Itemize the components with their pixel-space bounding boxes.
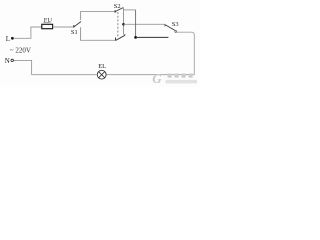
S1 lower contact riser: [80, 27, 82, 40]
fuse FU body: [42, 24, 53, 28]
svg-text:FU: FU: [44, 17, 53, 24]
svg-text:EL: EL: [98, 63, 106, 70]
wire node to S3 lower throw: [136, 36, 169, 38]
node on outer rail: [134, 36, 137, 39]
S2 lower throw tick: [115, 38, 117, 41]
lamp cross stroke 1: [99, 72, 105, 78]
S3 pole contact: [175, 31, 177, 33]
lamp EL: [97, 70, 106, 79]
S2 outer right rail: [135, 10, 137, 38]
bottom wire left segment: [32, 74, 98, 76]
svg-text:S1: S1: [71, 29, 78, 36]
svg-text:~ 220V: ~ 220V: [10, 46, 31, 54]
svg-text:S3: S3: [172, 21, 179, 28]
S2 lower blade: [116, 35, 125, 40]
lamp cross stroke 2: [99, 72, 105, 78]
switch S1 blade: [74, 22, 81, 27]
wire node to S3 upper throw: [124, 23, 166, 25]
S2 linkage dashed: [117, 12, 119, 37]
switch S3 blade: [165, 25, 175, 31]
FU underline: [44, 21, 51, 23]
S2 inner right rail with hook: [124, 8, 126, 35]
svg-text:L: L: [6, 35, 10, 43]
bottom wire right segment: [106, 74, 194, 76]
S3 upper throw tick: [164, 24, 166, 26]
switch S1 pole tick: [73, 25, 75, 28]
node on inner rail: [122, 23, 125, 26]
background: [0, 0, 200, 87]
terminal N dot: [11, 59, 13, 61]
watermark row1 characters: [168, 74, 193, 78]
wire S3 to right rail down: [177, 32, 194, 74]
svg-text:S2: S2: [114, 3, 121, 10]
wire L to fuse: [14, 27, 42, 38]
S2 upper blade: [115, 8, 123, 12]
terminal L dot: [11, 37, 14, 40]
svg-text:N: N: [5, 57, 10, 65]
S2 upper throw tick: [114, 10, 116, 13]
bottom wire S1 to S2: [80, 39, 115, 41]
svg-text:G: G: [152, 71, 162, 86]
wire fuse to S1: [53, 26, 74, 28]
watermark row2 bar: [166, 80, 198, 84]
top wire S1 to S2: [80, 11, 115, 13]
S1 upper contact riser: [80, 12, 82, 20]
wire up to N: [13, 60, 31, 74]
S2 top cross link: [124, 9, 136, 11]
